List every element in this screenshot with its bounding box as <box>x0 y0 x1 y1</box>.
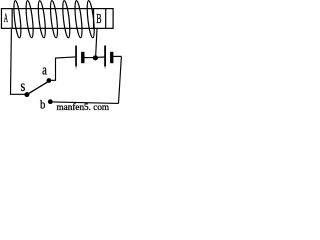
solenoid core frame <box>1 9 113 29</box>
wire from A down left side <box>11 29 27 94</box>
coil L turn 5 <box>61 0 71 38</box>
switch blade <box>27 81 49 95</box>
contact dot a <box>47 78 52 83</box>
wire bar2 to right corner <box>113 55 121 57</box>
battery cell 1 negative bar <box>81 52 84 63</box>
right side wire down <box>119 56 122 103</box>
wire from a up to battery <box>50 57 75 80</box>
end-box A divider <box>11 9 13 29</box>
contact dot b <box>48 99 53 104</box>
coil L turn 4 <box>49 0 59 38</box>
coil L turn 3 <box>37 0 47 38</box>
coil L turn 6 <box>74 0 84 38</box>
svg-text:b: b <box>40 98 46 112</box>
svg-text:a: a <box>42 62 47 78</box>
coil L turn 2 <box>25 0 35 38</box>
battery cell 2 negative bar <box>110 52 113 63</box>
wire bar1 to junction <box>85 57 94 59</box>
end-box B left divider <box>93 9 95 29</box>
junction dot <box>93 55 98 60</box>
battery cell 2 positive electrode <box>104 46 106 67</box>
coil L turn 1 <box>13 0 23 38</box>
switch pivot dot s <box>24 92 29 97</box>
bottom wire to contact b <box>52 102 119 104</box>
svg-text:s: s <box>21 78 26 96</box>
end-box B right divider <box>105 9 107 29</box>
wire junction to cell 2 <box>98 56 104 58</box>
svg-text:A: A <box>4 13 8 26</box>
coil L turn 7 <box>86 0 96 38</box>
svg-text:B: B <box>96 12 101 27</box>
battery cell 1 positive electrode <box>75 46 77 67</box>
wire from B box down to junction <box>96 29 97 56</box>
